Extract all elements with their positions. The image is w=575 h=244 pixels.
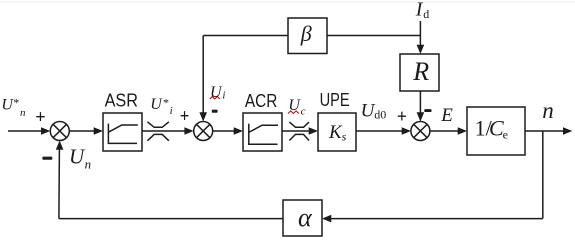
svg-text:U: U [210, 84, 223, 101]
svg-text:n: n [542, 98, 554, 123]
svg-text:s: s [342, 130, 347, 144]
svg-text:e: e [503, 127, 508, 141]
svg-text:n: n [20, 107, 26, 119]
svg-text:ASR: ASR [105, 90, 138, 110]
svg-text:E: E [440, 105, 453, 126]
svg-text:+: + [397, 107, 407, 128]
svg-text:d: d [423, 7, 429, 21]
svg-text:ACR: ACR [245, 91, 278, 111]
svg-text:+: + [180, 106, 190, 127]
svg-text:i: i [170, 105, 173, 117]
svg-text:d0: d0 [374, 107, 386, 121]
svg-text:β: β [300, 21, 312, 46]
svg-text:UPE: UPE [320, 90, 350, 110]
svg-text:*: * [13, 95, 19, 109]
svg-text:U: U [69, 145, 86, 169]
svg-text:*: * [163, 95, 169, 109]
svg-text:U: U [288, 97, 301, 114]
svg-text:n: n [85, 157, 92, 172]
svg-text:c: c [301, 105, 306, 117]
svg-text:U: U [150, 96, 163, 113]
svg-text:α: α [298, 203, 313, 232]
svg-text:+: + [35, 107, 45, 128]
svg-text:R: R [412, 57, 429, 86]
svg-text:i: i [222, 89, 225, 101]
